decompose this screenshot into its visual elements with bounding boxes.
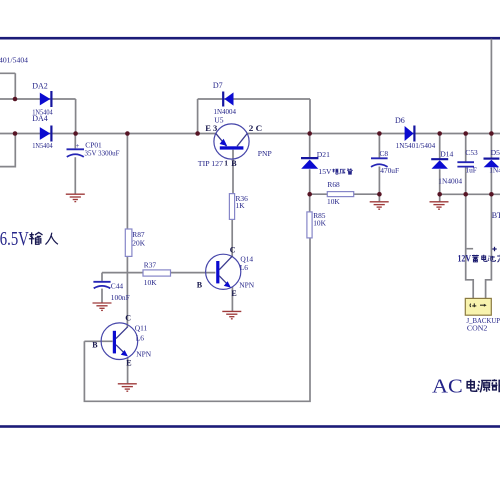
svg-text:401/5404: 401/5404 <box>0 56 28 65</box>
svg-text:C: C <box>230 246 236 255</box>
svg-text:NPN: NPN <box>136 349 151 358</box>
svg-text:D14: D14 <box>440 150 453 159</box>
svg-text:10K: 10K <box>327 197 340 206</box>
svg-text:1N4004: 1N4004 <box>438 177 462 186</box>
svg-text:D21: D21 <box>317 150 330 159</box>
svg-text:E: E <box>231 289 236 298</box>
svg-text:BT1: BT1 <box>492 211 500 220</box>
svg-text:C: C <box>125 313 131 322</box>
svg-text:Q11: Q11 <box>135 323 148 332</box>
svg-text:1: 1 <box>224 158 228 167</box>
svg-text:1N5401/5404: 1N5401/5404 <box>396 141 436 150</box>
svg-text:PNP: PNP <box>258 149 272 158</box>
svg-text:+: + <box>76 142 80 150</box>
svg-text:1N5404: 1N5404 <box>32 141 53 150</box>
svg-text:1K: 1K <box>236 201 246 210</box>
svg-text:100nF: 100nF <box>111 293 130 302</box>
svg-text:6.5V: 6.5V <box>0 229 29 250</box>
svg-text:E: E <box>126 358 131 367</box>
svg-text:CON2: CON2 <box>467 324 487 333</box>
svg-text:DA2: DA2 <box>32 82 48 91</box>
svg-text:B: B <box>231 159 237 168</box>
svg-text:B: B <box>197 280 203 289</box>
svg-text:R37: R37 <box>144 260 157 269</box>
svg-text:C44: C44 <box>111 282 124 291</box>
svg-text:20K: 20K <box>132 239 145 248</box>
svg-text:E 3: E 3 <box>205 124 217 133</box>
svg-text:D6: D6 <box>395 116 405 125</box>
svg-text:NPN: NPN <box>239 280 254 289</box>
svg-text:R68: R68 <box>327 180 340 189</box>
svg-text:TIP 127: TIP 127 <box>198 159 223 168</box>
svg-text:1uF: 1uF <box>465 166 477 175</box>
svg-text:C53: C53 <box>465 148 478 157</box>
svg-text:470uF: 470uF <box>380 166 399 175</box>
svg-text:2 C: 2 C <box>249 124 263 133</box>
svg-text:B: B <box>92 340 98 349</box>
svg-text:L6: L6 <box>240 263 249 272</box>
svg-text:D5: D5 <box>491 148 500 157</box>
svg-text:35V 3300uF: 35V 3300uF <box>85 148 120 157</box>
svg-text:D7: D7 <box>213 81 223 90</box>
svg-text:12V: 12V <box>458 254 472 264</box>
svg-text:15V: 15V <box>318 167 332 176</box>
svg-text:DA4: DA4 <box>32 114 48 123</box>
svg-text:L6: L6 <box>136 333 145 342</box>
svg-text:C8: C8 <box>380 149 389 158</box>
svg-text:1N40: 1N40 <box>489 165 500 174</box>
svg-text:AC: AC <box>432 376 463 398</box>
svg-text:10K: 10K <box>144 278 157 287</box>
svg-text:10K: 10K <box>313 219 326 228</box>
